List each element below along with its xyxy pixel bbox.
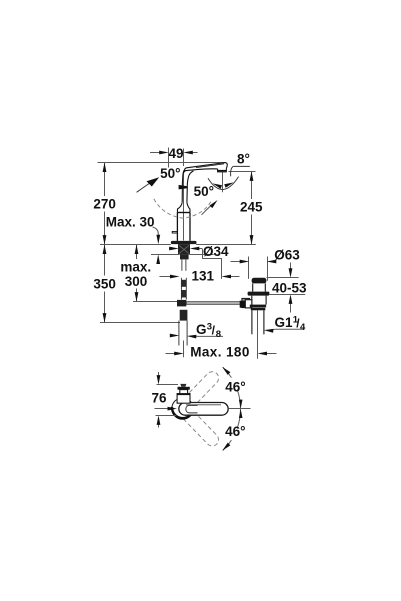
svg-text:Max. 30: Max. 30: [106, 214, 155, 229]
svg-text:131: 131: [192, 269, 215, 284]
svg-text:270: 270: [93, 197, 116, 212]
svg-text:40-53: 40-53: [272, 281, 307, 296]
svg-text:8°: 8°: [237, 151, 250, 166]
svg-text:max.: max.: [120, 260, 151, 275]
svg-text:G1: G1: [275, 315, 294, 330]
svg-text:Ø63: Ø63: [274, 247, 300, 262]
svg-text:49: 49: [168, 146, 183, 161]
svg-text:Max. 180: Max. 180: [190, 345, 250, 360]
svg-text:8: 8: [216, 329, 221, 340]
svg-text:G: G: [196, 322, 207, 337]
svg-text:4: 4: [300, 322, 306, 333]
svg-text:300: 300: [125, 274, 148, 289]
svg-text:50°: 50°: [194, 184, 214, 199]
svg-text:76: 76: [151, 390, 167, 405]
svg-text:46°: 46°: [225, 424, 245, 439]
svg-text:245: 245: [240, 200, 263, 215]
svg-text:350: 350: [93, 277, 116, 292]
svg-text:Ø34: Ø34: [203, 244, 229, 259]
svg-text:50°: 50°: [160, 166, 180, 181]
svg-text:46°: 46°: [225, 380, 245, 395]
